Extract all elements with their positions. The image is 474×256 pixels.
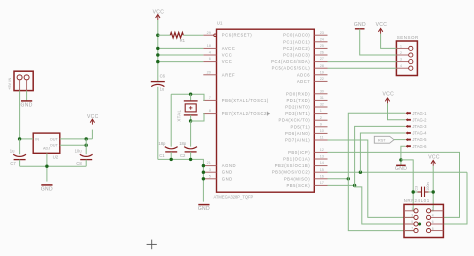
- svg-text:PC1(ADC1): PC1(ADC1): [283, 39, 310, 44]
- wire sensor gnd to pin2: [360, 29, 397, 55]
- U1 right pin 25 PC2(ADC2): [314, 47, 327, 49]
- svg-text:U1: U1: [217, 21, 223, 26]
- wire SCL pin28 to sensor pin4: [328, 67, 397, 69]
- svg-text:AVCC: AVCC: [222, 46, 236, 51]
- svg-text:PB0(ICP): PB0(ICP): [288, 150, 310, 155]
- U1 right pin 30 PD0(RXD): [314, 93, 327, 95]
- JTAG-4 pin: [405, 132, 408, 135]
- wire C8 top: [85, 139, 87, 154]
- U1 right pin 32 PD2(INT0): [314, 106, 327, 108]
- svg-text:ATMEGA328P_TQFP: ATMEGA328P_TQFP: [214, 194, 254, 199]
- wire connector pin2 to ground: [26, 91, 28, 101]
- NRF pin 4: [431, 216, 444, 218]
- U1 left pin 18 AVCC: [203, 47, 216, 49]
- wire VCC to NRF pin2 / C3: [431, 166, 434, 211]
- svg-text:U2: U2: [53, 154, 59, 159]
- svg-text:29: 29: [207, 31, 211, 35]
- svg-text:GND: GND: [222, 176, 233, 181]
- svg-text:GND: GND: [395, 166, 407, 172]
- svg-text:14: 14: [320, 161, 324, 165]
- svg-text:6: 6: [209, 57, 211, 61]
- connector X1 +5V IN: [14, 71, 33, 90]
- junction VCC/R1: [156, 34, 159, 37]
- svg-text:VCC: VCC: [376, 22, 388, 28]
- U1 right pin 14 PB2(SS/OC1B): [314, 165, 327, 167]
- capacitor C8 10u: [80, 154, 93, 156]
- microcontroller U1 ATMEGA328P_TQFP: [217, 29, 315, 192]
- svg-text:PB6(XTAL1/TOSC1): PB6(XTAL1/TOSC1): [222, 98, 269, 103]
- VCC supply arrow (sensor): [378, 28, 382, 31]
- wire SCK to JTAG-3: [355, 126, 406, 185]
- U1 left pin 7 PB6(XTAL1/TOSC1): [203, 99, 216, 101]
- junction C2 gnd: [189, 158, 192, 161]
- wire R1 to pin29: [183, 34, 203, 36]
- junction ADJ/gnd rail: [45, 165, 48, 168]
- svg-text:100n: 100n: [426, 182, 430, 190]
- wire GND pin5 row: [202, 178, 204, 180]
- svg-text:25: 25: [320, 44, 324, 48]
- VCC supply arrow (regulator): [90, 119, 94, 122]
- svg-text:PD4(XCK/T0): PD4(XCK/T0): [279, 118, 311, 123]
- svg-text:8: 8: [432, 227, 434, 231]
- svg-text:PB3(MOSI/OC2): PB3(MOSI/OC2): [272, 170, 310, 175]
- U1 right pin 31 PD1(TXD): [314, 99, 327, 101]
- svg-text:2: 2: [400, 51, 402, 55]
- svg-text:7: 7: [411, 227, 413, 231]
- svg-text:6: 6: [432, 220, 434, 224]
- svg-text:C6: C6: [160, 73, 166, 78]
- wire OUT row 2: [60, 144, 86, 146]
- svg-text:30: 30: [320, 89, 324, 93]
- svg-text:10: 10: [320, 129, 324, 133]
- U1 right pin 15 PB3(MOSI/OC2): [314, 171, 327, 173]
- SENSOR pin 1: [396, 47, 408, 49]
- crystal XTAL: [184, 100, 198, 102]
- wire VCC to JTAG-2: [388, 103, 406, 119]
- svg-text:PC0(ADC0): PC0(ADC0): [283, 33, 310, 38]
- U1 right pin 22 ADC7: [314, 80, 327, 82]
- svg-text:1: 1: [400, 44, 402, 48]
- JTAG-1 pin: [405, 112, 408, 115]
- svg-text:21: 21: [207, 161, 211, 165]
- svg-text:19: 19: [320, 70, 324, 74]
- NRF pin 5: [404, 223, 414, 225]
- U1 right pin 10 PD6(AIN0): [314, 132, 327, 134]
- junction IN/C7: [18, 137, 21, 140]
- svg-text:GND: GND: [222, 170, 233, 175]
- svg-text:ADC7: ADC7: [297, 79, 310, 84]
- wire connector pin1 down: [19, 91, 21, 139]
- junction C1 gnd: [170, 158, 173, 161]
- capacitor C7 1u: [13, 154, 26, 156]
- svg-text:32: 32: [320, 103, 324, 107]
- ground bar (sensor): [355, 28, 365, 30]
- svg-text:GND: GND: [198, 206, 210, 212]
- svg-text:PC5(ADC5/SCL): PC5(ADC5/SCL): [272, 66, 311, 71]
- U1 right pin 17 PB5(SCK): [314, 184, 327, 186]
- svg-text:PD2(INT0): PD2(INT0): [285, 105, 310, 110]
- ground bar (JTAG): [396, 164, 406, 166]
- VCC supply arrow (JTAG): [385, 98, 389, 101]
- junction VCC pin4: [156, 53, 159, 56]
- junction AVCC: [156, 47, 159, 50]
- svg-text:5: 5: [209, 174, 211, 178]
- wire MOSI to NRF pin6: [443, 172, 467, 224]
- wire C7 top: [19, 139, 21, 154]
- junction MISO: [347, 177, 350, 180]
- U1 left pin 29 PC6(RESET): [203, 34, 214, 36]
- wire XTAL2 down to C2: [190, 121, 192, 147]
- NRF pin 6: [431, 223, 444, 225]
- wire VCC to R1: [158, 34, 171, 36]
- wire crystal bottom stub: [190, 115, 192, 121]
- svg-text:PC3(ADC3): PC3(ADC3): [283, 53, 310, 58]
- U1 left pin 20 AREF: [203, 74, 216, 76]
- svg-text:PD5(T1): PD5(T1): [291, 124, 311, 129]
- wire XTAL2 net: pin8 jog: [191, 114, 204, 121]
- svg-text:9: 9: [320, 122, 322, 126]
- svg-text:27: 27: [320, 57, 324, 61]
- svg-text:7: 7: [209, 96, 211, 100]
- wire AGND row: [202, 165, 204, 167]
- svg-text:PD0(RXD): PD0(RXD): [286, 91, 310, 96]
- wire crystal top stub: [190, 94, 192, 100]
- svg-text:IN: IN: [35, 137, 39, 141]
- NRF pin 7: [404, 230, 414, 232]
- wire VCC pin6 row: [158, 61, 204, 63]
- svg-text:VCC: VCC: [382, 91, 394, 97]
- U1 right pin 1 PD3(INT1): [314, 113, 327, 115]
- wire PB0 pin12 to NRF pin4: [328, 152, 460, 217]
- NRF pin 1: [404, 210, 414, 212]
- ground (power connector): [21, 100, 32, 102]
- VCC supply arrow (top left): [156, 15, 160, 18]
- net flag RST: [374, 136, 394, 143]
- svg-text:JTAG-5: JTAG-5: [412, 137, 427, 142]
- svg-text:PD1(TXD): PD1(TXD): [286, 98, 310, 103]
- junction GND pin5: [202, 177, 205, 180]
- wire SCK to NRF pin5: [355, 185, 414, 224]
- svg-text:PC2(ADC2): PC2(ADC2): [283, 46, 310, 51]
- svg-text:XTAL: XTAL: [177, 109, 182, 121]
- svg-text:26: 26: [320, 51, 324, 55]
- svg-text:3: 3: [209, 168, 211, 172]
- svg-text:1: 1: [320, 109, 322, 113]
- U1 right pin 19 ADC6: [314, 74, 327, 76]
- svg-text:AREF: AREF: [222, 72, 235, 77]
- wire RST flag to JTAG-5: [394, 139, 405, 141]
- svg-text:PB1(OC1A): PB1(OC1A): [283, 157, 310, 162]
- svg-text:C2: C2: [180, 153, 186, 158]
- wire SDA pin27 to sensor pin3: [328, 61, 397, 63]
- svg-text:C1: C1: [159, 153, 165, 158]
- svg-text:20: 20: [207, 70, 211, 74]
- capacitor C2 18p: [184, 147, 197, 149]
- svg-text:+5V IN: +5V IN: [7, 78, 12, 90]
- svg-text:OUT: OUT: [50, 144, 59, 148]
- svg-text:31: 31: [320, 96, 324, 100]
- svg-text:GND: GND: [41, 186, 53, 192]
- SENSOR pin 3: [396, 61, 408, 63]
- U1 pin 29 inversion bubble: [214, 34, 217, 37]
- wire VCC pin4 row: [158, 54, 204, 56]
- wire gnd rail (crystal area): [158, 159, 204, 201]
- svg-text:4: 4: [432, 214, 434, 218]
- svg-text:3: 3: [411, 214, 413, 218]
- wire XTAL1 net: pin7 jog: [171, 94, 204, 100]
- U1 right pin 27 PC4(ADC4/SDA): [314, 61, 327, 63]
- svg-text:PB7(XTAL2/TOSC2): PB7(XTAL2/TOSC2): [222, 111, 269, 116]
- svg-text:OUT: OUT: [50, 137, 59, 141]
- svg-text:18p: 18p: [179, 141, 187, 146]
- wire C6 bottom to gnd rail: [157, 87, 159, 160]
- wire MOSI pin15 row: [328, 171, 468, 173]
- svg-text:PD6(AIN0): PD6(AIN0): [285, 131, 310, 136]
- svg-text:C7: C7: [10, 161, 16, 166]
- U1 left pin 4 VCC: [203, 54, 216, 56]
- NRF pin 2: [431, 210, 444, 212]
- wire XTAL1 down to C1: [170, 94, 172, 146]
- wire sensor vcc to pin1: [381, 34, 397, 49]
- svg-text:JTAG-6: JTAG-6: [412, 144, 427, 149]
- junction gnd node: [399, 158, 402, 161]
- svg-text:ADC6: ADC6: [297, 72, 310, 77]
- wire JTAG-6 to gnd: [401, 146, 405, 165]
- U1 left pin 3 GND: [203, 171, 216, 173]
- svg-text:PD7(AIN1): PD7(AIN1): [285, 138, 310, 143]
- JTAG-3 pin: [405, 125, 408, 128]
- junction VCC pin6 / C6: [156, 60, 159, 63]
- svg-text:18p: 18p: [158, 141, 166, 146]
- svg-text:VCC: VCC: [222, 53, 233, 58]
- svg-text:GND: GND: [21, 102, 33, 108]
- wire VCC rail vertical: [157, 20, 159, 81]
- svg-text:RST: RST: [378, 137, 386, 142]
- capacitor C6: [151, 81, 165, 83]
- svg-text:23: 23: [320, 31, 324, 35]
- ground (regulator): [41, 184, 52, 186]
- svg-text:4: 4: [400, 64, 402, 68]
- U1 right pin 9 PD5(T1): [314, 126, 327, 128]
- svg-text:17: 17: [320, 181, 324, 185]
- svg-text:JTAG-4: JTAG-4: [412, 131, 427, 136]
- wire MISO pin16 row: [328, 178, 349, 180]
- junction GND pin3: [202, 171, 205, 174]
- U1 right pin 13 PB1(OC1A): [314, 158, 327, 160]
- wire OUT row 1: [60, 138, 93, 140]
- origin cross mark: [147, 243, 157, 245]
- junction crystal bottom: [189, 119, 192, 122]
- svg-text:2: 2: [432, 207, 434, 211]
- svg-text:AGND: AGND: [222, 163, 236, 168]
- wire regulator gnd rail: [19, 160, 21, 167]
- svg-text:13: 13: [320, 155, 324, 159]
- JTAG-2 pin: [405, 118, 408, 121]
- svg-text:PB4(MISO): PB4(MISO): [284, 176, 310, 181]
- U1 left pin 8 PB7(XTAL2/TOSC2): [203, 113, 216, 115]
- svg-text:5: 5: [411, 220, 413, 224]
- svg-text:PB5(SCK): PB5(SCK): [286, 183, 310, 188]
- resistor R1: [170, 33, 183, 38]
- U1 right pin 16 PB4(MISO): [314, 178, 327, 180]
- wire MOSI to JTAG-4: [360, 133, 405, 172]
- svg-text:ADJ: ADJ: [43, 147, 50, 151]
- junction crystal top: [189, 93, 192, 96]
- svg-text:PC6(RESET): PC6(RESET): [222, 33, 252, 38]
- capacitor C3 100n: [413, 191, 418, 193]
- svg-text:C3: C3: [414, 186, 418, 191]
- svg-text:JTAG-3: JTAG-3: [412, 124, 427, 129]
- svg-text:1: 1: [411, 207, 413, 211]
- svg-text:8: 8: [209, 109, 211, 113]
- JTAG-6 pin: [405, 145, 408, 148]
- svg-text:JTAG-1: JTAG-1: [412, 111, 427, 116]
- JTAG-5 pin: [405, 138, 408, 141]
- U1 left pin 6 VCC: [203, 61, 216, 63]
- junction MOSI: [359, 171, 362, 174]
- U1 right pin 12 PB0(ICP): [314, 151, 327, 153]
- U1 right pin 24 PC1(ADC1): [314, 41, 327, 43]
- svg-text:NRF24L01: NRF24L01: [404, 198, 430, 203]
- U1 right pin 28 PC5(ADC5/SCL): [314, 67, 327, 69]
- svg-text:22: 22: [320, 77, 324, 81]
- wire gnd to NRF pin1 / C3: [401, 160, 414, 211]
- svg-text:PC4(ADC4/SDA): PC4(ADC4/SDA): [271, 59, 310, 64]
- voltage regulator U2: [33, 133, 60, 153]
- svg-text:3: 3: [400, 58, 402, 62]
- svg-text:28: 28: [320, 64, 324, 68]
- svg-text:2: 2: [320, 116, 322, 120]
- svg-text:1u: 1u: [10, 148, 15, 153]
- svg-text:16: 16: [320, 174, 324, 178]
- svg-text:GND: GND: [354, 22, 366, 28]
- svg-text:C8: C8: [76, 161, 82, 166]
- svg-text:12: 12: [320, 148, 324, 152]
- junction OUT2: [85, 144, 88, 147]
- wire AVCC row: [158, 47, 204, 49]
- U1 right pin 2 PD4(XCK/T0): [314, 119, 327, 121]
- svg-text:VCC: VCC: [428, 154, 440, 160]
- wire ADJ down: [46, 153, 48, 181]
- svg-text:SENSOR: SENSOR: [397, 35, 419, 40]
- svg-text:R1: R1: [180, 38, 186, 43]
- U1 right pin 26 PC3(ADC3): [314, 54, 327, 56]
- ground (below U1): [198, 204, 209, 206]
- svg-text:JTAG-2: JTAG-2: [412, 117, 427, 122]
- wire RST pin11 row: [328, 140, 415, 217]
- svg-text:11: 11: [320, 136, 324, 140]
- svg-text:4: 4: [209, 51, 211, 55]
- junction AGND: [202, 164, 205, 167]
- U1 left pin 21 AGND: [203, 165, 216, 167]
- junction OUT1: [85, 137, 88, 140]
- junction SCK: [353, 184, 356, 187]
- svg-text:1u: 1u: [160, 87, 165, 92]
- svg-text:PB2(SS/OC1B): PB2(SS/OC1B): [275, 163, 311, 168]
- svg-text:VCC: VCC: [222, 59, 233, 64]
- VCC supply arrow (NRF): [431, 160, 435, 163]
- PB7 clock mark: [267, 112, 270, 115]
- wire IN row: [20, 138, 34, 140]
- SENSOR pin 2: [396, 54, 408, 56]
- U1 right pin 11 PD7(AIN1): [314, 139, 327, 141]
- capacitor C1 18p: [165, 147, 178, 149]
- wire MISO vertical: [348, 113, 414, 230]
- junction NRF pin5: [418, 223, 421, 226]
- SENSOR pin 4: [396, 67, 408, 69]
- svg-text:24: 24: [320, 37, 324, 41]
- NRF pin 3: [404, 216, 414, 218]
- U1 right pin 23 PC0(ADC0): [314, 34, 327, 36]
- wire VCC arrow riser: [91, 130, 93, 139]
- svg-text:18: 18: [207, 44, 211, 48]
- U1 left pin 5 GND: [203, 178, 216, 180]
- wire SCK pin17 row: [328, 184, 355, 186]
- svg-text:PD3(INT1): PD3(INT1): [285, 111, 310, 116]
- NRF pin 8: [431, 230, 444, 232]
- svg-text:10u: 10u: [75, 148, 83, 153]
- svg-text:15: 15: [320, 168, 324, 172]
- wire GND pin3 row: [202, 171, 204, 173]
